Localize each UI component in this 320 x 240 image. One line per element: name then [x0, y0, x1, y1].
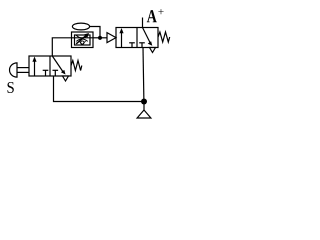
label A+ [147, 10, 157, 22]
valve A+ exhaust vent triangle [150, 48, 156, 53]
valve S exhaust vent triangle [63, 76, 69, 81]
supply junction dot [141, 99, 147, 105]
valve S body [29, 56, 71, 76]
valve A+ output port line to A [142, 18, 144, 28]
compressed air source triangle [137, 110, 151, 118]
flow path through flow control valve [72, 37, 94, 39]
check valve ball and seat [79, 41, 86, 45]
valve A+ pilot actuator triangle [107, 33, 116, 43]
valve A+ right-box exhaust flow arrow [143, 28, 153, 46]
throttle arcs [76, 35, 87, 41]
label S [7, 82, 13, 93]
throttle adjustment arrow [76, 33, 89, 44]
wire from junction to air source [143, 102, 145, 111]
wire from reservoir to pilot line [90, 27, 100, 38]
flow control valve inner box [75, 35, 91, 45]
valve S return spring [71, 61, 82, 71]
valve S left-box blocked port [43, 70, 49, 76]
air reservoir ellipse [72, 23, 89, 30]
valve S left-box flow arrow [32, 57, 36, 76]
valve A+ right-box blocked port P [139, 43, 145, 48]
junction dot on pilot line [98, 36, 102, 40]
valve S right-box exhaust flow arrow [52, 56, 65, 75]
valve A+ left-box blocked port [129, 43, 135, 48]
pilot line from flow control valve to valve A+ [93, 37, 107, 39]
valve A+ left-box flow arrow [119, 28, 123, 47]
wire from valve A+ supply port down to junction [142, 48, 145, 102]
valve A+ body [116, 28, 158, 48]
wire from valve S output up to flow control valve [52, 38, 71, 56]
valve A+ return spring [158, 32, 170, 42]
flow control valve outer box [72, 32, 94, 48]
valve S right-box blocked port P [53, 70, 59, 76]
valve S pushbutton actuator [10, 63, 29, 77]
wire from valve S supply port down to supply rail [54, 76, 145, 102]
